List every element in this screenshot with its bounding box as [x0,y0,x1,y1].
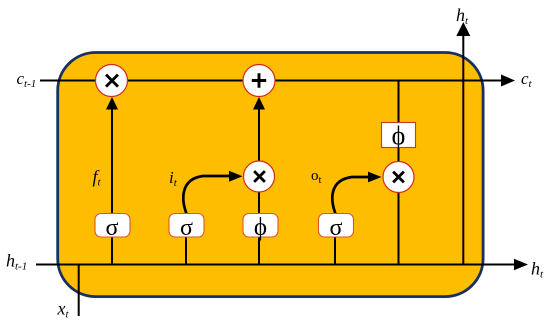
wire below right multiply [398,193,400,265]
svg-text:xt: xt [57,299,70,321]
wire c-line horizontal [40,80,503,82]
wire h-line horizontal [36,264,516,266]
arrowhead h_t top [456,22,470,36]
svg-text:ht-1: ht-1 [6,251,27,273]
arrowhead into add node [253,97,265,110]
svg-text:ϕ: ϕ [254,214,267,241]
wire multiply-to-add vertical [258,106,260,162]
sigma box 1 (forget gate) [95,214,130,238]
svg-text:σ: σ [106,215,119,241]
wire h_t top vertical [462,34,464,265]
arrowhead h_t right [514,259,528,271]
phi box 2 (cell output activation) [382,123,416,148]
svg-text:ϕ: ϕ [392,121,406,150]
svg-text:ct: ct [521,69,533,90]
svg-text:σ: σ [330,215,343,241]
multiply node (input) [244,161,275,192]
wire o_t curved arrow [332,177,369,215]
wire mid vertical lower (phi to multiply) [258,192,260,265]
wire i_t curved arrow [183,176,231,215]
arrowhead c_t [501,75,515,87]
add node [243,65,275,97]
wire i vertical [185,236,187,265]
arrowhead into multiply node [106,97,118,110]
LSTM cell body [58,53,483,297]
wire phi branch from c-line [398,81,400,163]
phi box 1 (candidate) [243,214,278,238]
svg-text:ht: ht [531,259,544,281]
sigma box 3 (output gate) [319,214,354,238]
multiply node (output) [383,162,414,193]
svg-text:σ: σ [180,215,193,241]
sigma box 2 (input gate) [169,214,204,238]
wire x_t vertical input [78,265,80,317]
svg-text:ht: ht [456,5,469,27]
multiply node (forget) [96,65,128,97]
svg-text:ct-1: ct-1 [17,69,37,90]
wire f vertical [111,106,113,265]
wire o vertical [334,236,336,265]
